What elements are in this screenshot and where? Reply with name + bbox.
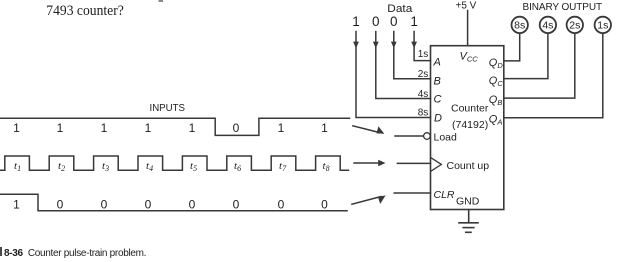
svg-text:1: 1 [57,121,64,135]
wire: Count-up pin stub [397,162,430,164]
ground [458,210,479,233]
svg-text:1: 1 [13,121,20,135]
node: 2s binary output indicator [567,17,583,33]
svg-text:1: 1 [321,121,328,135]
wire: Load input waveform trace [0,118,350,135]
svg-text:1: 1 [101,121,108,135]
svg-text:Load: Load [434,132,458,144]
svg-text:2s: 2s [418,69,429,80]
arrowhead on data line 1s [411,42,417,49]
wire: data bit 2s from digit 0 to pin B [394,32,431,79]
svg-text:0: 0 [145,198,152,212]
wire: +5V supply to Vcc pin [467,11,469,46]
wire: QA output to 1s indicator [504,33,603,118]
svg-text:0: 0 [233,121,240,135]
svg-text:1: 1 [278,121,285,135]
svg-text:0: 0 [233,198,240,212]
wire: CLR pin stub [394,192,430,194]
wire: QB output to 2s indicator [504,33,575,98]
svg-text:0: 0 [372,14,380,29]
svg-text:BINARY OUTPUT: BINARY OUTPUT [523,2,602,13]
node: 8s binary output indicator [512,17,528,33]
wire: Count-up clock waveform trace [0,156,349,170]
wire: QD output to 8s indicator [504,33,520,61]
svg-text:7493 counter?: 7493 counter? [46,3,124,19]
svg-text:0: 0 [101,198,108,212]
svg-text:4s: 4s [542,20,553,32]
svg-text:CLR: CLR [434,189,455,201]
wire: QC output to 4s indicator [504,33,548,78]
svg-text:1: 1 [189,121,196,135]
svg-text:4s: 4s [418,89,429,100]
wire: Load pin stub [395,135,423,137]
node: 1s binary output indicator [595,17,611,33]
svg-text:+5 V: +5 V [456,1,477,12]
svg-text:Count up: Count up [447,160,490,172]
svg-text:(74192): (74192) [452,119,488,131]
inverting bubble on Load pin [424,133,431,140]
svg-text:0: 0 [57,198,64,212]
node: 4s binary output indicator [540,17,556,33]
svg-text:1: 1 [145,121,152,135]
counter U1 (74192) body [431,46,504,210]
svg-text:INPUTS: INPUTS [150,103,186,114]
arrowhead to Load pin [377,126,385,134]
arrowhead on data line 2s [391,42,397,49]
wire: data bit 8s from digit 1 to pin D [356,32,431,118]
svg-text:0: 0 [321,198,328,212]
svg-text:0: 0 [278,198,285,212]
arrowhead on data line 4s [373,42,379,49]
svg-text:1s: 1s [597,20,608,32]
svg-text:1s: 1s [418,49,429,60]
wire: CLR input waveform trace [0,194,347,210]
svg-text:0: 0 [189,198,196,212]
svg-text:8s: 8s [418,107,429,118]
arrow shaft to Count-up pin [354,162,381,164]
svg-text:0: 0 [390,14,398,29]
svg-text:C: C [434,93,442,105]
arrow shaft to CLR pin [352,197,381,205]
arrowhead to Count-up pin [378,160,385,167]
wire: data bit 1s from digit 1 to pin A [414,32,430,61]
scan artifact mark [159,0,164,2]
wire: data bit 4s from digit 0 to pin C [376,32,431,99]
svg-text:1: 1 [13,198,20,212]
arrowhead on data line 8s [353,42,359,49]
svg-text:1: 1 [352,14,360,29]
svg-text:B: B [434,76,441,88]
svg-text:A: A [433,57,441,69]
arrow shaft to Load pin [353,126,380,133]
svg-text:Data: Data [387,3,413,15]
scan artifact: page-edge mark [0,247,2,256]
svg-text:D: D [434,113,442,125]
arrowhead to CLR pin [378,195,386,204]
svg-text:Counter: Counter [451,103,489,115]
svg-text:1: 1 [410,14,418,29]
svg-text:GND: GND [456,196,480,208]
clock triangle on Count-up pin [431,157,442,171]
svg-text:8s: 8s [514,20,525,32]
svg-text:2s: 2s [569,20,580,32]
